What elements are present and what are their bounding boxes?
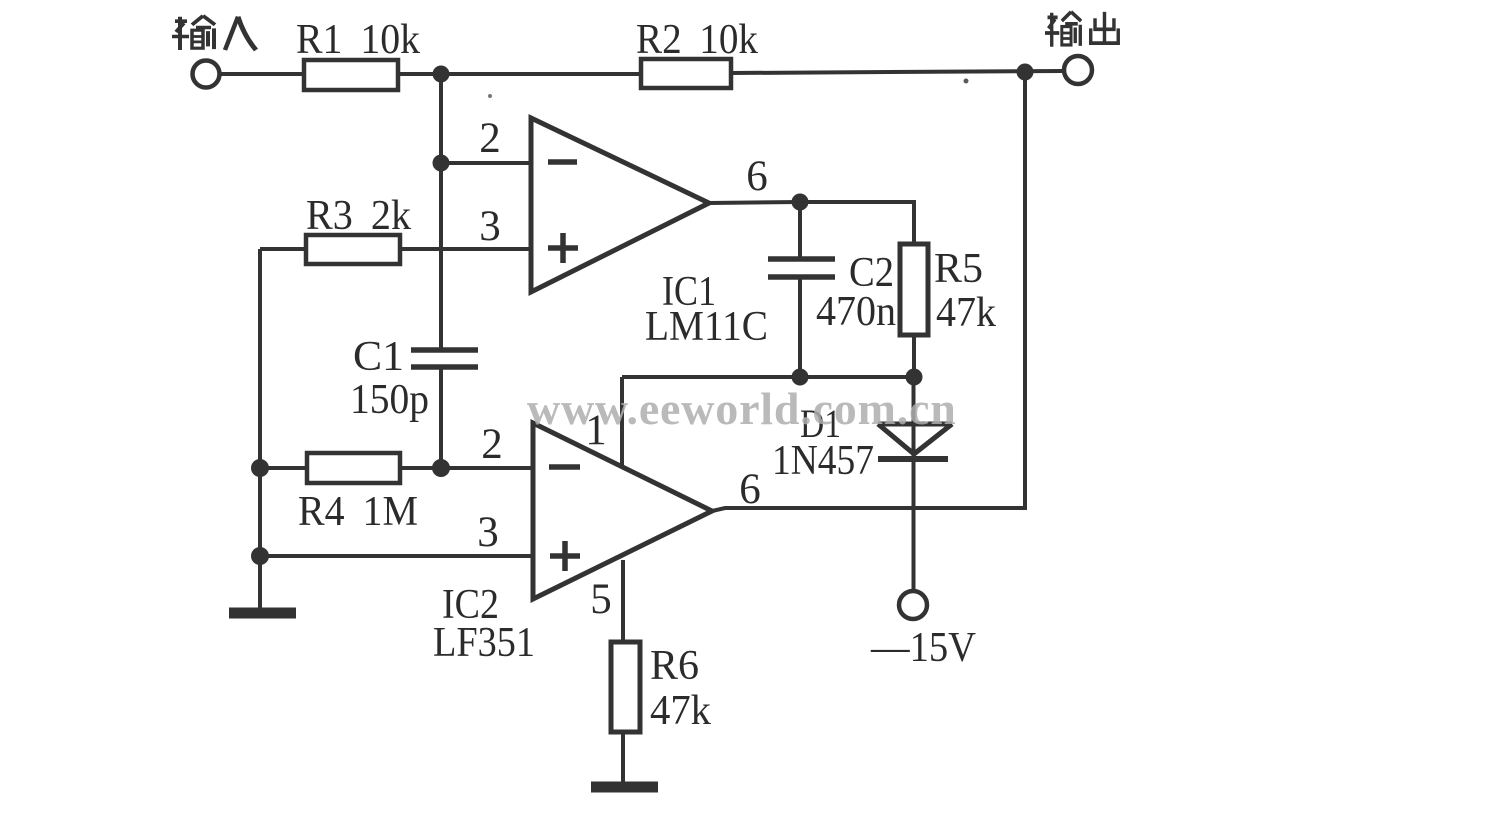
svg-text:R2 10k: R2 10k — [636, 17, 758, 63]
node junction C2 bottom — [792, 369, 809, 386]
plus sign IC1 — [548, 233, 578, 263]
svg-text:6: 6 — [746, 153, 768, 200]
svg-text:47k: 47k — [650, 688, 711, 734]
capacitor C2 — [768, 259, 835, 277]
wire IC2 output to feedback — [712, 71, 1025, 511]
svg-text:R4 1M: R4 1M — [298, 489, 418, 535]
svg-text:LM11C: LM11C — [645, 304, 768, 350]
node junction pin6 IC1 — [792, 194, 809, 211]
svg-text:R3 2k: R3 2k — [306, 193, 411, 239]
svg-text:2: 2 — [481, 421, 503, 468]
svg-text:R6: R6 — [650, 643, 699, 689]
label 输出 (hand-drawn glyphs) — [1045, 12, 1118, 47]
svg-text:www.eeworld.com.cn: www.eeworld.com.cn — [527, 383, 957, 434]
wire R4 left — [260, 466, 307, 470]
label 输入 (hand-drawn glyphs) — [172, 16, 256, 50]
wire C2 bottom — [798, 277, 802, 377]
wire C1 bottom to R4 node — [439, 367, 443, 468]
wire R4 to pin 2 of IC2 — [400, 466, 533, 470]
wire R2 to output — [731, 71, 1064, 73]
resistor R6 — [611, 642, 640, 732]
svg-text:3: 3 — [477, 509, 499, 556]
wire pin 1 of IC2 — [620, 377, 624, 467]
wire R3 left — [260, 247, 306, 251]
wire left vertical rail — [258, 249, 262, 608]
resistor R5 — [900, 244, 928, 335]
wire pin 2 of IC1 — [441, 161, 531, 165]
wire D1 anode — [912, 377, 916, 590]
scan speck 2 — [488, 94, 492, 98]
resistor R4 — [307, 453, 400, 483]
minus sign IC2 — [549, 464, 580, 470]
svg-text:2: 2 — [479, 115, 501, 162]
wire R5 bottom — [912, 335, 916, 377]
wire R3 to pin 3 of IC1 — [400, 247, 531, 251]
-15V terminal circle — [899, 591, 927, 619]
wire node A down to C1 — [439, 74, 443, 350]
output terminal circle 输出 — [1064, 56, 1092, 84]
resistor R2 — [641, 59, 731, 88]
svg-text:470n: 470n — [816, 289, 896, 335]
resistor R1 — [304, 60, 398, 90]
svg-text:150p: 150p — [350, 377, 429, 423]
wire IC1 output to R5 top — [709, 202, 914, 244]
svg-text:47k: 47k — [936, 290, 996, 336]
plus sign IC2 — [550, 541, 580, 571]
net wire pin1 to D1 — [622, 375, 914, 379]
op-amp U2 IC2 triangle — [533, 423, 712, 599]
node output junction — [1017, 64, 1034, 81]
ground (left rail) — [229, 608, 296, 619]
wire input to R1 — [220, 72, 304, 76]
svg-text:3: 3 — [479, 203, 501, 250]
svg-text:R1 10k: R1 10k — [296, 17, 420, 63]
wire pin 5 down to R6 — [621, 560, 625, 642]
minus sign IC1 — [548, 159, 577, 165]
svg-text:5: 5 — [590, 576, 612, 623]
node junction R4 left — [251, 459, 269, 477]
svg-text:6: 6 — [739, 466, 761, 513]
node junction R5 bottom / D1 — [906, 369, 923, 386]
wire R1 to R2 — [398, 72, 641, 76]
scan speck 1 — [964, 79, 969, 84]
wire R6 to ground — [621, 732, 625, 782]
svg-text:R5: R5 — [934, 246, 983, 292]
diode D1 — [878, 424, 952, 454]
node junction R4 right / C1 — [432, 459, 450, 477]
wire C2 top — [798, 202, 802, 259]
input terminal circle 输入 — [193, 61, 220, 88]
node junction B (pin2 net) — [433, 155, 450, 172]
svg-text:1N457: 1N457 — [772, 438, 874, 484]
op-amp U1 IC1 triangle — [531, 118, 709, 292]
node junction pin3 left — [251, 547, 269, 565]
wire pin 3 of IC2 — [260, 554, 533, 558]
node junction A — [433, 66, 450, 83]
svg-text:LF351: LF351 — [433, 620, 535, 666]
ground (under R6) — [591, 782, 658, 793]
resistor R3 — [306, 235, 400, 264]
svg-text:C1: C1 — [353, 334, 404, 380]
svg-text:—15V: —15V — [870, 625, 976, 671]
capacitor C1 — [411, 350, 478, 367]
diode D1 cathode bar — [878, 456, 948, 462]
